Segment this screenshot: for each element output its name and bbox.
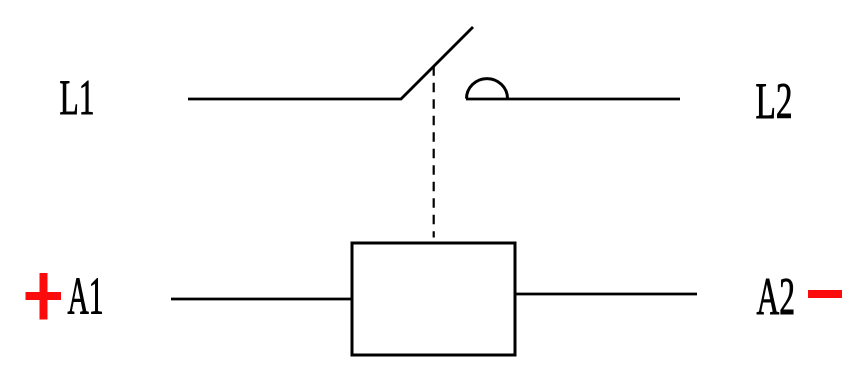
svg-text:L2: L2 bbox=[756, 74, 793, 130]
svg-text:A1: A1 bbox=[68, 268, 104, 326]
wire bbox=[188, 98, 402, 101]
wire bbox=[171, 298, 353, 301]
wire bbox=[514, 293, 697, 296]
svg-text:A2: A2 bbox=[757, 268, 796, 326]
relay coil K1 (box) bbox=[352, 243, 515, 355]
polarity - bbox=[808, 290, 842, 298]
switch blade (moving contact) bbox=[401, 27, 474, 100]
polarity + bbox=[26, 273, 62, 320]
contact terminal (semicircle) bbox=[467, 79, 508, 99]
mechanical linkage (dashed) bbox=[433, 66, 435, 237]
wire bbox=[466, 98, 680, 101]
svg-text:L1: L1 bbox=[60, 69, 95, 125]
